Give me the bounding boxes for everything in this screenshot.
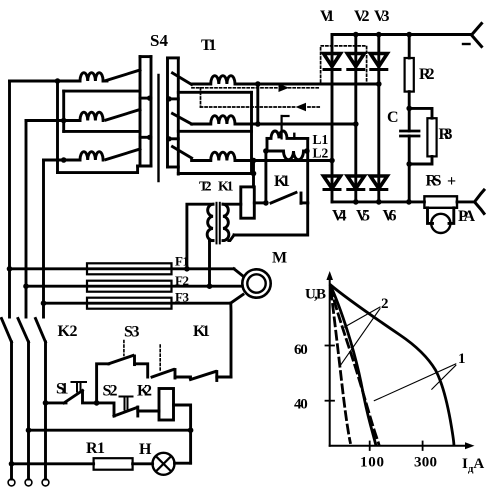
wire L1 left leg <box>266 138 269 151</box>
resistor R2 <box>405 58 414 92</box>
wire A horizontal <box>29 429 191 432</box>
winding T1 primary 2 <box>80 112 103 120</box>
node dot return3 junction <box>251 171 257 177</box>
wire C bottom <box>408 136 411 202</box>
svg-text:60: 60 <box>294 342 308 358</box>
svg-text:S2: S2 <box>103 383 118 400</box>
svg-text:K1: K1 <box>193 323 210 340</box>
wire bus2 vertical <box>62 91 65 131</box>
wire T2 right bottom jog <box>229 235 234 241</box>
dashed box around V1 V2 <box>321 46 367 82</box>
svg-text:C: C <box>387 109 399 126</box>
contact terminal K1 aux <box>215 372 218 381</box>
wire L left vertical down <box>264 151 267 203</box>
svg-text:K1: K1 <box>274 173 290 190</box>
svg-text:R1: R1 <box>86 440 105 457</box>
wire column V3 <box>377 35 380 70</box>
wire phase C vertical upper <box>42 160 45 317</box>
transformer T2 core <box>216 203 218 244</box>
wire phase 1 horizontal <box>10 80 81 83</box>
S4 right rung 2 <box>168 97 179 100</box>
wire T2 primary bottom <box>210 239 214 242</box>
wire R3 bottom <box>409 156 432 164</box>
wire K2 coil right <box>174 405 191 463</box>
wire stub after winding 1 <box>103 80 107 83</box>
dashed link row1 <box>192 87 321 89</box>
contactor K2 main contact blade 1 <box>2 319 12 343</box>
svg-text:H: H <box>139 441 152 458</box>
node dot right rung3 <box>167 136 172 141</box>
wire column V2 <box>354 35 357 70</box>
wire row1 to winding <box>192 83 211 86</box>
svg-text:R2: R2 <box>419 66 435 83</box>
node dot F3 tap <box>41 300 47 306</box>
wire phase A vertical upper <box>8 81 11 317</box>
switch S4 blade 1 <box>106 70 140 81</box>
axis X <box>330 445 468 447</box>
winding T2 primary <box>207 204 213 240</box>
winding T2 secondary <box>223 204 229 240</box>
node dot T2 to F2 row <box>207 283 213 289</box>
PLACEHOLDER-BOTTOM2 <box>326 271 475 450</box>
wire S1 right <box>83 391 97 403</box>
svg-text:V4: V4 <box>332 208 347 225</box>
switch S4 blade 2 <box>106 110 140 121</box>
node dot C top <box>406 106 412 112</box>
S4 left bar a <box>139 57 142 166</box>
svg-text:40: 40 <box>294 397 308 413</box>
contactor K2 main contact blade 2 <box>18 319 29 343</box>
node dot bus V3 <box>376 32 382 38</box>
S4 rung bottom <box>138 165 151 168</box>
electrode fork negative <box>472 24 482 47</box>
wire lamp row left <box>12 462 94 465</box>
wire R3 top <box>409 108 432 118</box>
S4 right rung 3 <box>168 137 179 140</box>
wire lamp to riser <box>175 462 191 465</box>
inductor L1 <box>267 131 308 138</box>
svg-text:T1: T1 <box>201 37 217 54</box>
diode V4 <box>324 176 341 189</box>
winding T1 primary 1 <box>80 73 103 81</box>
diode V2 <box>347 54 364 67</box>
wire S2 left <box>97 403 114 416</box>
svg-text:V6: V6 <box>383 208 397 225</box>
wire F3 to motor <box>231 295 244 304</box>
node dot S1 S2 junction <box>94 400 100 406</box>
tick 100 <box>369 442 371 451</box>
node dot right rung2 <box>167 96 172 101</box>
capacitor C <box>401 130 420 133</box>
curve 1a solid steep <box>331 286 376 445</box>
relay coil K1 <box>241 187 255 218</box>
wire row B right <box>217 376 231 379</box>
terminal C <box>42 479 49 486</box>
wire phase B vertical lower <box>27 342 30 479</box>
wire row1 to bridge <box>235 83 379 86</box>
node dot K2 wireA junction <box>188 427 194 433</box>
svg-text:S4: S4 <box>150 31 169 50</box>
switch S4 blade 3 <box>106 149 140 160</box>
curve 1b solid flat <box>331 285 454 445</box>
shunt RS <box>424 196 457 208</box>
wire F1 to motor <box>234 269 244 277</box>
node dot row1 diode column3 <box>376 81 382 87</box>
node dot phase2 bus <box>61 118 67 124</box>
node dot S1 left <box>43 400 49 406</box>
minus sign <box>463 43 470 45</box>
motor M inner <box>247 274 265 292</box>
wire phase 3 horizontal <box>44 159 81 162</box>
S4 right bar a <box>166 58 169 167</box>
svg-text:100: 100 <box>360 455 384 471</box>
dotted link S3 <box>123 341 125 356</box>
winding T1 secondary 1 <box>211 76 235 84</box>
wire secondary return2 <box>178 130 251 133</box>
S4 left bar b <box>150 57 153 166</box>
wire column V5 bottom <box>354 190 357 202</box>
switch S3 pole2 blade <box>152 370 174 378</box>
fuse F1 <box>87 263 172 274</box>
svg-text:V5: V5 <box>356 208 370 225</box>
svg-text:V2: V2 <box>354 8 370 25</box>
wire row3 to winding <box>192 159 211 162</box>
svg-text:S1: S1 <box>56 381 69 398</box>
diode V5 <box>347 176 364 189</box>
wire row B mid <box>175 376 191 379</box>
S4 right rung bottom <box>168 166 179 169</box>
svg-text:1: 1 <box>458 351 466 367</box>
svg-text:L2: L2 <box>313 146 329 161</box>
contactor K1 aux blade <box>191 372 216 380</box>
node dot phase1 bus <box>55 78 61 84</box>
wire S1 left <box>46 401 67 404</box>
svg-text:T2: T2 <box>199 180 212 195</box>
svg-text:S3: S3 <box>124 324 140 341</box>
node dot lamp row left <box>9 461 15 467</box>
diode V6 <box>370 176 387 189</box>
wire phase 2 horizontal <box>26 119 80 122</box>
wire R1 to lamp <box>133 462 153 465</box>
node dot row2 bus <box>255 121 261 127</box>
wire K1 coil top feed <box>252 161 255 187</box>
S4 rung 3 <box>140 136 151 139</box>
wire K1 bottom loop <box>234 203 308 235</box>
svg-text:2: 2 <box>381 296 389 312</box>
tick 300 <box>422 442 424 451</box>
curve 2b dashed <box>331 288 379 445</box>
wire F2 row <box>26 285 242 288</box>
fuse F2 <box>87 281 172 292</box>
svg-text:U,B: U,B <box>305 287 326 303</box>
wire R2 bottom <box>408 92 411 131</box>
switch blade secondary 1 <box>173 73 192 85</box>
wire L right vertical <box>306 138 309 203</box>
contact terminal S2 <box>136 407 139 416</box>
node dot T2 to F1 row <box>184 266 190 272</box>
wire PA left lead <box>428 208 433 224</box>
svg-text:K2: K2 <box>137 383 152 400</box>
pushbutton S2 plunger <box>120 397 133 410</box>
contact K1 fixed terminal <box>300 193 303 203</box>
svg-text:RS: RS <box>426 173 442 190</box>
wire phase A vertical lower <box>10 342 13 479</box>
node dot rung3 <box>147 135 152 140</box>
svg-text:R3: R3 <box>439 126 453 143</box>
wire T2 secondary top to K1 coil <box>223 203 241 206</box>
wire RS to plus fork <box>457 200 475 203</box>
node dot row3 diode column1 <box>329 158 335 164</box>
node dot bus V2 <box>353 32 359 38</box>
node dot F2 tap <box>23 283 29 289</box>
wire S3 row left riser <box>97 364 109 403</box>
terminal A <box>8 479 15 486</box>
ammeter PA <box>431 214 450 233</box>
node dot phase3 <box>61 157 67 163</box>
S4 rung 2 <box>140 97 151 100</box>
curve 2a dashed steep <box>331 291 350 443</box>
dashed link row2 <box>201 106 296 108</box>
wire R2 top <box>408 35 411 59</box>
switch S3 pole1 blade <box>109 356 133 364</box>
arrow left on dashed link <box>296 103 307 111</box>
wire L2 stub <box>293 134 295 139</box>
arrow right on dashed link <box>279 84 290 92</box>
wire return left row3 <box>58 166 138 173</box>
S4 right rung top <box>168 56 179 59</box>
svg-text:F1: F1 <box>175 254 189 269</box>
node dot wireA left <box>26 427 32 433</box>
node dot row2 diode column2 <box>353 121 359 127</box>
leader lines label 2 <box>344 307 380 327</box>
svg-text:V3: V3 <box>374 8 390 25</box>
wire phase B vertical upper <box>25 121 28 318</box>
node dot C bottom <box>406 161 412 167</box>
diode V1 <box>324 54 341 67</box>
winding T1 primary 3 <box>80 152 103 160</box>
wire return left row1 <box>64 90 140 93</box>
inductor L2 <box>266 151 308 160</box>
node dot L2 left <box>263 148 269 154</box>
wire return left row2 <box>64 130 140 133</box>
wire column V4 bottom <box>331 190 334 202</box>
wire S2 to K2 coil <box>138 410 159 413</box>
resistor R3 <box>427 118 436 156</box>
diode V3 <box>370 54 387 67</box>
contact terminal S3 pole2 <box>174 370 177 379</box>
wire F1 row <box>10 267 234 270</box>
axis Y <box>329 277 331 446</box>
switch blade secondary 3 <box>173 147 192 158</box>
lamp H <box>153 453 175 475</box>
wire column V6 bottom <box>377 190 380 202</box>
wire top dc bus <box>332 33 472 36</box>
dashed link vertical <box>200 88 202 107</box>
wire branch F3 to K1 aux <box>229 303 232 377</box>
motor M outer <box>242 269 270 297</box>
svg-text:F2: F2 <box>175 273 189 288</box>
contactor K1 main contact blade <box>271 193 296 204</box>
wire row2 to winding <box>192 123 211 126</box>
svg-text:+: + <box>447 173 456 190</box>
svg-text:M: M <box>272 250 287 267</box>
pushbutton S1 plunger <box>72 382 87 392</box>
pushbutton S1 blade <box>64 391 83 403</box>
wire row3 to bridge <box>235 159 332 162</box>
PLACEHOLDER-RIGHT2 <box>7 263 271 475</box>
wire contact to right vertical <box>301 201 308 204</box>
wire T2 primary top <box>187 204 213 269</box>
svg-text:K2: K2 <box>58 323 78 340</box>
dotted link S3 pole2 <box>159 345 161 371</box>
contact terminal S3 pole1 <box>133 356 136 365</box>
node dot L2 right <box>304 148 310 154</box>
wire column V3-V6 <box>377 70 380 190</box>
tick 40 <box>326 400 335 402</box>
node dot row1 bus <box>255 81 261 87</box>
resistor R1 <box>94 458 133 470</box>
wire F3 row <box>44 302 231 305</box>
wire secondary return vertical <box>250 92 253 173</box>
contactor K2 main contact blade 3 <box>36 319 46 343</box>
node dot bottom bus V5 <box>353 199 359 205</box>
node dot F1 tap <box>7 266 13 272</box>
S4 right bar b <box>177 58 180 174</box>
winding T1 secondary 2 <box>211 116 235 124</box>
terminal B <box>25 479 32 486</box>
winding T1 secondary 3 <box>211 152 235 160</box>
svg-text:K1: K1 <box>218 180 234 195</box>
node dot rung2 <box>147 96 152 101</box>
wire column V1-V4 <box>331 70 334 190</box>
svg-text:V1: V1 <box>320 8 335 25</box>
wire row2 to bridge <box>235 123 356 126</box>
transformer T1 core <box>157 75 159 181</box>
relay coil K2 <box>159 389 174 421</box>
svg-text:PA: PA <box>458 208 475 225</box>
wire secondary return3 <box>178 172 253 175</box>
fuse F3 <box>87 298 172 309</box>
node dot row3 T2 branch <box>251 158 257 164</box>
dashed link right tail <box>308 106 321 108</box>
wire bottom dc bus <box>332 200 424 203</box>
node dot bottom bus R3 <box>406 199 412 205</box>
wire K1 coil to contact <box>254 201 266 204</box>
S4 rung top <box>140 55 151 58</box>
svg-text:300: 300 <box>414 455 437 471</box>
wire secondary return1 <box>178 91 251 94</box>
pushbutton S2 blade <box>114 408 137 417</box>
wire L1 top flag <box>282 115 289 117</box>
wire bus1 vertical <box>56 81 59 173</box>
svg-text:F3: F3 <box>175 290 190 305</box>
switch blade secondary 2 <box>173 114 192 125</box>
wire column V1 <box>331 35 334 70</box>
wire PA right lead <box>449 208 454 224</box>
wire column V2-V5 <box>354 70 357 190</box>
node dot bus R2 <box>406 32 412 38</box>
leader lines label 1 <box>374 364 456 401</box>
wire phase C vertical lower <box>44 342 47 479</box>
electrode fork positive <box>475 190 485 214</box>
wire bus row1-row2 <box>256 84 259 124</box>
tick 60 <box>326 345 335 347</box>
wire S3 row mid <box>135 364 148 377</box>
node dot bottom bus V6 <box>376 199 382 205</box>
node dot K1 contact left <box>263 200 269 206</box>
